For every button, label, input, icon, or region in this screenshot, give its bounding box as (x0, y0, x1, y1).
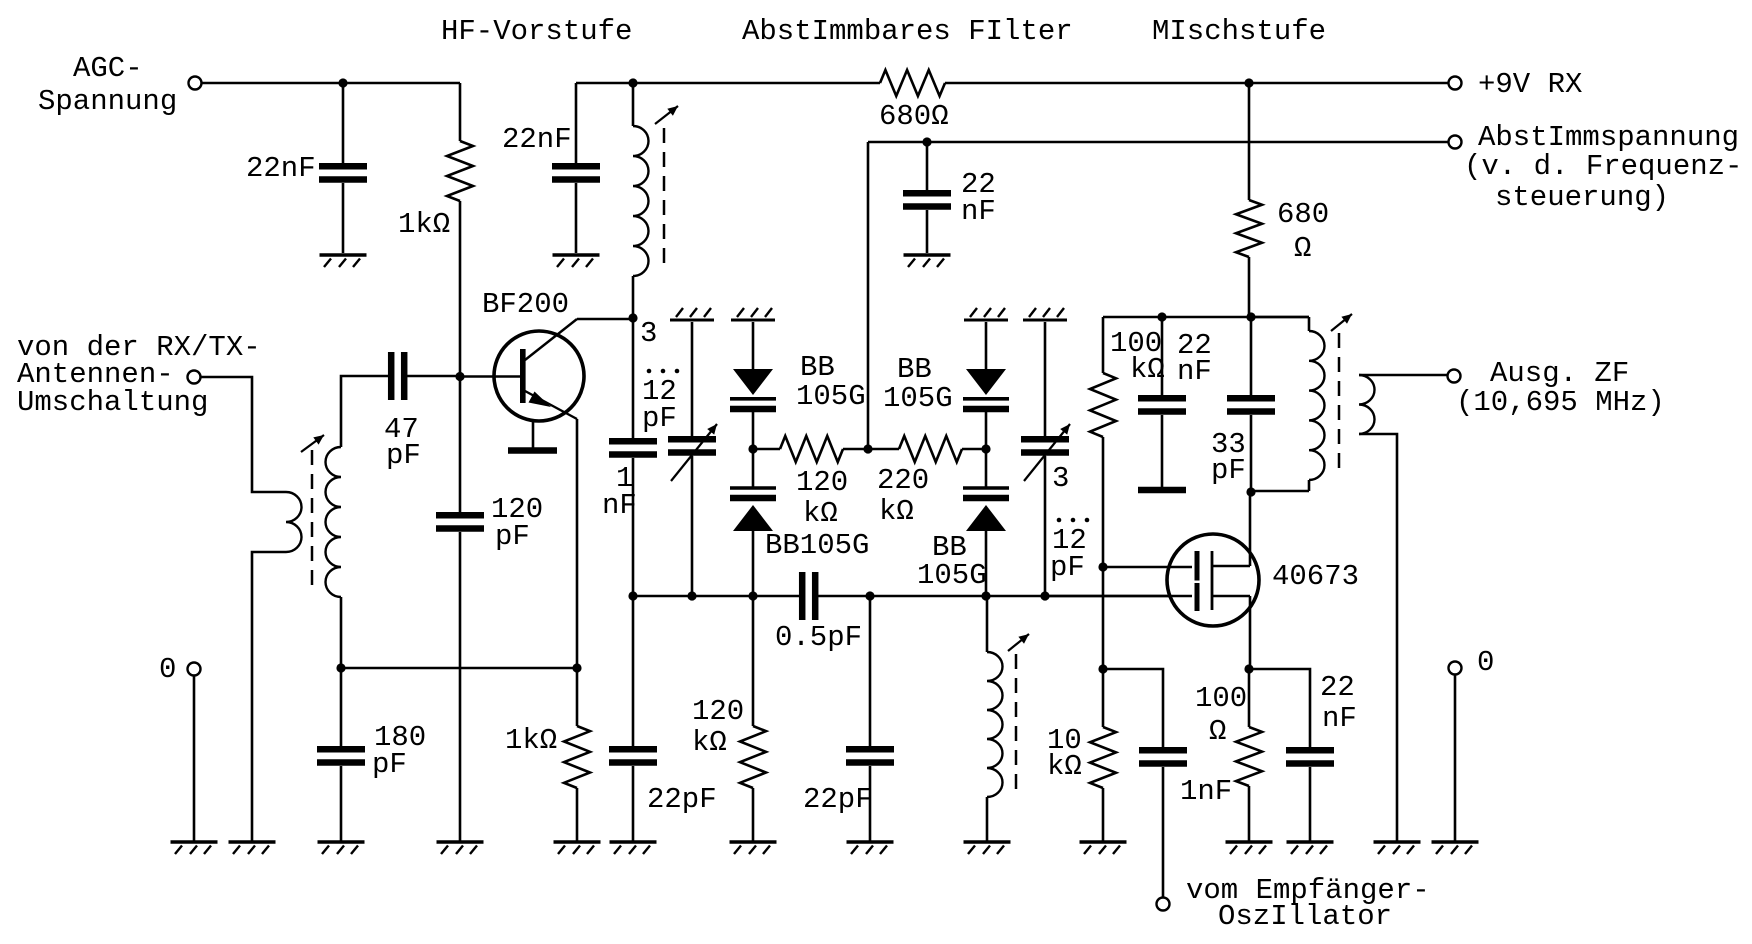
svg-text:120: 120 (692, 695, 744, 728)
junction source node (1244, 664, 1253, 673)
wire osc node to 1nF (1103, 669, 1163, 747)
wire +9V rail right part (945, 82, 1448, 85)
svg-text:pF: pF (495, 520, 530, 553)
junction rail/22pF2 (865, 591, 874, 600)
capacitor C8 22nF (1138, 398, 1186, 411)
ground R8 (1080, 842, 1127, 854)
wire 33pF top lead (1250, 317, 1253, 395)
ground 0 left (171, 842, 218, 854)
label BB 105G (D4) (917, 531, 987, 592)
label BB 105G (D1) (796, 351, 866, 413)
wire filter rail left (633, 595, 799, 598)
wire secondary to 180pF (340, 668, 343, 746)
transistor Q1 emitter stroke (525, 391, 577, 419)
wire osc node to R8 (1102, 669, 1105, 727)
junction filter rail/varactor1 (748, 591, 757, 600)
capacitor C7 22pF (846, 749, 894, 762)
wire collector to L1 node (577, 318, 633, 321)
wire varactor1 to R4 (753, 448, 780, 451)
wire R9 to mixer supply node (1248, 257, 1251, 317)
svg-text:steuerung): steuerung) (1495, 181, 1669, 214)
label 100Ohm R10 (1195, 682, 1247, 748)
wire C10 to osc terminal (1162, 767, 1165, 897)
junction tuning/C3 (922, 137, 931, 146)
wire +9V rail left part (576, 82, 880, 85)
wire 1nF to filter rail (632, 458, 635, 596)
wire varactor2 bottom lead (985, 531, 988, 596)
wire T1 secondary bottom (340, 597, 343, 668)
resistor R3 1kOhm emitter (564, 726, 590, 788)
junction drain node (1246, 487, 1255, 496)
label 1nF C10 (1180, 775, 1232, 808)
resistor R5 220kOhm (899, 436, 962, 462)
title HF-Vorstufe (441, 15, 632, 48)
wire base node down to C120 (459, 376, 462, 512)
label 1nF (602, 462, 637, 522)
wire R5 to varactor2 (962, 448, 986, 451)
wire T2 secondary bottom (1359, 434, 1397, 842)
label BB 105G (D3) (883, 353, 953, 415)
svg-text:0.5pF: 0.5pF (775, 621, 862, 654)
svg-text:kΩ: kΩ (879, 495, 914, 528)
wire 0 right to ground (1454, 675, 1457, 842)
inductor L3 filter coil (987, 652, 1002, 797)
terminal 0 right (1449, 662, 1462, 675)
wire G2 into mosfet (1103, 566, 1192, 569)
wire 33pF bottom lead (1250, 415, 1253, 492)
svg-text:22pF: 22pF (647, 783, 717, 816)
wire T2 primary bottom (1251, 490, 1309, 493)
ground inverted trimmer1 (670, 308, 714, 320)
diode D3 BB105G top (963, 369, 1009, 409)
label 120kOhm R4 (796, 466, 848, 530)
label 22nF C11 (1320, 671, 1357, 735)
wire AGC corner down to R1 (459, 83, 462, 141)
svg-text:(10,695 MHz): (10,695 MHz) (1456, 386, 1665, 419)
svg-text:pF: pF (372, 748, 407, 781)
junction filter rail/trimmer1 (687, 591, 696, 600)
label 1kOhm R1 (398, 208, 450, 241)
capacitor 120pF (436, 515, 484, 528)
svg-text:120: 120 (796, 466, 848, 499)
junction supply/22nF C8 (1157, 312, 1166, 321)
wire tuning line y=142 (868, 141, 1448, 144)
wire source node to C11 (1249, 669, 1310, 747)
wire varactor1 top lead (752, 322, 755, 369)
svg-text:220: 220 (877, 464, 929, 497)
wire R4 to tuning feed (843, 448, 868, 451)
wire base lead (460, 375, 520, 378)
wire tuning feed to R5 (868, 448, 899, 451)
ground R10 (1226, 842, 1273, 854)
junction AGC/22nF (338, 78, 347, 87)
label 22pF C7 (803, 783, 873, 816)
svg-text:kΩ: kΩ (1130, 353, 1165, 386)
transistor Q2 source tap (1212, 595, 1250, 598)
ground R6 (730, 842, 777, 854)
label 100kOhm R7 (1110, 327, 1165, 386)
svg-text:680: 680 (1277, 198, 1329, 231)
wire varactor2 top lead (985, 322, 988, 369)
terminal AGC-Spannung (189, 77, 202, 90)
capacitor C1 22nF (319, 166, 367, 179)
svg-text:Umschaltung: Umschaltung (17, 386, 208, 419)
inductor T1 secondary (326, 447, 342, 597)
label 22nF C3 (961, 168, 996, 228)
label 680Ohm R2 (879, 100, 949, 133)
resistor R1 1kOhm (447, 141, 473, 201)
wire C8 bottom lead (1161, 415, 1164, 487)
diode D1 BB105G top (730, 369, 776, 409)
resistor R4 120kOhm (780, 436, 843, 462)
svg-text:100: 100 (1195, 682, 1247, 715)
capacitor C2 22nF (552, 166, 600, 179)
wire 0 left to ground (193, 676, 196, 842)
svg-text:OszIllator: OszIllator (1218, 900, 1392, 933)
label 3...12pF trimmer2 (1050, 462, 1089, 584)
ground L3 (964, 842, 1011, 854)
arrow trimmer C4 (671, 424, 717, 481)
label 22nF C8 (1177, 329, 1212, 388)
junction collector node (628, 313, 637, 322)
wire filter rail right (816, 595, 1192, 598)
wire trimmer2 top lead (1044, 322, 1047, 436)
wire C8 top lead (1161, 317, 1164, 395)
junction tuning feed (863, 444, 872, 453)
inductor T2 secondary (1359, 375, 1374, 434)
wire antenna to T1 primary (201, 377, 286, 492)
wire L1 bottom lead (632, 276, 635, 318)
label 220kOhm R5 (877, 464, 929, 528)
label Abstimmspannung (1464, 121, 1742, 214)
arrow trimmer C5 (1024, 424, 1070, 481)
svg-text:22nF: 22nF (246, 152, 316, 185)
svg-text:22nF: 22nF (502, 123, 572, 156)
terminal 0 left (188, 663, 201, 676)
svg-text:(v. d. Frequenz-: (v. d. Frequenz- (1464, 150, 1742, 183)
label 40673 (1272, 560, 1359, 593)
ground inverted varactor2 (964, 308, 1008, 320)
core L3 dashed (1015, 654, 1018, 790)
inductor T2 primary (1309, 317, 1325, 491)
resistor R6 120kOhm (740, 726, 766, 788)
core T1 dashed (311, 450, 314, 590)
svg-text:AGC-: AGC- (73, 52, 143, 85)
svg-text:1kΩ: 1kΩ (398, 208, 450, 241)
wire R1 to base node (459, 201, 462, 376)
core T2 dashed (1338, 333, 1341, 472)
label 0 left (159, 653, 176, 686)
wire C2 bottom lead (575, 183, 578, 253)
svg-text:105G: 105G (796, 380, 866, 413)
label +9V RX (1478, 68, 1582, 101)
svg-text:680Ω: 680Ω (879, 100, 949, 133)
wire tuning feed down (867, 142, 870, 449)
svg-text:0: 0 (159, 653, 176, 686)
wire collector node down to 1nF (632, 318, 635, 438)
wire varactor1 mid lower (752, 449, 755, 487)
svg-text:pF: pF (1050, 551, 1085, 584)
svg-text:kΩ: kΩ (803, 497, 838, 530)
capacitor C6 22pF (609, 749, 657, 762)
svg-text:1kΩ: 1kΩ (505, 724, 557, 757)
arrow L1 adjustable (655, 106, 678, 124)
junction filter rail/1nF (628, 591, 637, 600)
wire source node to R10 (1248, 669, 1251, 727)
wire R8 to ground (1102, 788, 1105, 842)
svg-text:22pF: 22pF (803, 783, 873, 816)
svg-text:3: 3 (1052, 462, 1069, 495)
wire drain up (1249, 492, 1252, 566)
ground C1 (320, 255, 367, 267)
svg-text:+9V RX: +9V RX (1478, 68, 1582, 101)
label BB105G (D2) (765, 529, 869, 562)
capacitor 180pF (317, 749, 365, 762)
terminal antenna input (188, 371, 201, 384)
label 680Ohm R9 (1277, 198, 1329, 265)
transistor Q1 shield ground bar (508, 447, 557, 454)
label 120pF (491, 493, 543, 553)
ground C11 (1287, 842, 1334, 854)
capacitor C11 22nF (1286, 750, 1334, 763)
transistor Q1 base bar (520, 349, 526, 403)
svg-text:1nF: 1nF (1180, 775, 1232, 808)
svg-text:nF: nF (1177, 355, 1212, 388)
diode D2 BB105G bottom (730, 488, 776, 531)
arrow L3 adjustable (1008, 634, 1029, 651)
wire R7 to G2 node (1102, 437, 1105, 567)
terminal Ausg. ZF (1448, 370, 1461, 383)
label 22nF C1 (246, 152, 316, 185)
svg-text:Ω: Ω (1294, 232, 1311, 265)
resistor R9 680Ohm (1236, 200, 1262, 257)
diode D4 BB105G bottom (963, 488, 1009, 531)
ground 120pF (437, 842, 484, 854)
svg-text:pF: pF (1211, 454, 1246, 487)
wire L3 to ground (986, 797, 989, 842)
trimmer capacitor C4 plates (668, 439, 716, 452)
capacitor 1nF coupling (609, 441, 657, 454)
wire C3 bottom lead (926, 210, 929, 253)
svg-text:3: 3 (640, 317, 657, 350)
ground inverted trimmer2 (1023, 308, 1067, 320)
label 10kOhm R8 (1047, 724, 1082, 783)
svg-text:AbstImmbares FIlter: AbstImmbares FIlter (742, 15, 1073, 48)
junction supply/33pF (1246, 312, 1255, 321)
wire C11 to ground (1309, 767, 1312, 842)
svg-text:kΩ: kΩ (1047, 750, 1082, 783)
svg-text:nF: nF (961, 195, 996, 228)
wire C1 bottom lead (342, 183, 345, 253)
junction rail/L1 (628, 78, 637, 87)
wire T2 secondary top to output (1359, 374, 1447, 377)
transistor Q2 channel (1211, 551, 1214, 610)
wire source down (1249, 596, 1252, 669)
label Ausg. ZF (1456, 357, 1665, 419)
wire bypass rail y=668 (341, 667, 577, 670)
ground 180pF (318, 842, 365, 854)
title Mischstufe (1152, 15, 1326, 48)
label 33pF C9 (1211, 428, 1246, 487)
svg-text:BF200: BF200 (482, 288, 569, 321)
ground 0 right (1432, 842, 1479, 854)
wire trimmer1 bottom lead (691, 456, 694, 596)
wire emitter to R3 (576, 668, 579, 726)
junction osc node (1098, 664, 1107, 673)
label 22pF C6 (647, 783, 717, 816)
wire 22nF C1 top lead (342, 83, 345, 163)
transistor Q2 drain tap (1212, 565, 1250, 568)
ground C2 (553, 255, 600, 267)
junction G2 node (1098, 562, 1107, 571)
capacitor C3 22nF (903, 193, 951, 206)
wire AGC node y=83 (202, 82, 460, 85)
wire 100k top corner (1102, 317, 1105, 373)
wire L1 top lead (632, 83, 635, 126)
svg-text:pF: pF (642, 402, 677, 435)
ground inverted varactor1 (731, 308, 775, 320)
wire varactor2 mid lower (985, 449, 988, 487)
resistor R8 10kOhm (1090, 727, 1116, 788)
ground T2 secondary (1374, 842, 1421, 854)
ground C6 (610, 842, 657, 854)
junction varactor2 tuning node (981, 444, 990, 453)
junction secondary/bypass rail (336, 663, 345, 672)
wire L3 top lead (986, 596, 989, 652)
wire T1 secondary top (341, 376, 388, 447)
junction rail/R680 vertical (1244, 78, 1253, 87)
capacitor 47pF (391, 352, 404, 400)
svg-text:Ω: Ω (1209, 715, 1226, 748)
arrow T1 adjustable (301, 435, 324, 452)
wire T2 primary top (1251, 316, 1309, 319)
label von der RX/TX-Antennen-Umschaltung (17, 331, 261, 419)
label 0.5pF (775, 621, 862, 654)
inductor T1 primary (286, 492, 302, 552)
svg-text:nF: nF (1322, 702, 1357, 735)
trimmer capacitor C5 plates (1021, 439, 1069, 452)
label 3...12pF trimmer1 (640, 317, 679, 435)
junction filter rail/varactor2 (981, 591, 990, 600)
wire R6 top lead (752, 596, 755, 726)
wire R6 to ground (752, 788, 755, 842)
junction base node (455, 372, 464, 381)
svg-text:kΩ: kΩ (692, 726, 727, 759)
wire G2 node down to osc node (1102, 567, 1105, 669)
svg-text:105G: 105G (883, 382, 953, 415)
svg-text:HF-Vorstufe: HF-Vorstufe (441, 15, 632, 48)
resistor R2 680Ohm series (880, 70, 945, 96)
wire C7 to ground (869, 766, 872, 842)
transistor Q1 collector stroke (525, 319, 577, 360)
ground R3 (554, 842, 601, 854)
transistor Q2 40673 body (1167, 534, 1259, 626)
wire C3 top lead (926, 142, 929, 190)
wire trimmer2 bottom lead (1044, 456, 1047, 596)
svg-text:105G: 105G (917, 559, 987, 592)
wire mixer supply node y=317 (1103, 316, 1309, 319)
wire varactor1 mid (752, 412, 755, 449)
wire G1 into mosfet (1045, 595, 1192, 598)
chassis bar C8 (1138, 487, 1186, 494)
svg-text:BB105G: BB105G (765, 529, 869, 562)
junction emitter/bypass rail (572, 663, 581, 672)
junction filter rail/trimmer2 (1040, 591, 1049, 600)
wire T1 primary bottom to ground (252, 552, 286, 842)
svg-text:22: 22 (1320, 671, 1355, 704)
arrow T2 adjustable (1331, 314, 1352, 331)
label 180pF (372, 721, 426, 781)
wire 120pF to ground (459, 532, 462, 842)
label BF200 (482, 288, 569, 321)
capacitor C10 1nF (1139, 750, 1187, 763)
svg-text:Spannung: Spannung (38, 85, 177, 118)
wire 22pF C7 top lead (869, 596, 872, 746)
title Abstimmbares Filter (742, 15, 1073, 48)
terminal vom Empfaenger-Oszillator (1157, 898, 1170, 911)
transistor Q1 BF200 body (494, 331, 584, 421)
resistor R7 100kOhm (1090, 373, 1116, 437)
ground C3 (904, 255, 951, 267)
wire 22pF C6 top lead (632, 596, 635, 746)
label AGC-Spannung (38, 52, 177, 118)
capacitor 0.5pF coupling (802, 572, 815, 620)
wire 180pF to ground (340, 766, 343, 842)
wire 47pF to base node (405, 375, 460, 378)
label 22nF C2 (502, 123, 572, 156)
terminal +9V RX (1449, 77, 1462, 90)
svg-text:40673: 40673 (1272, 560, 1359, 593)
wire supply drop top (1248, 83, 1251, 200)
label 1kOhm R3 (505, 724, 557, 757)
svg-text:nF: nF (602, 489, 637, 522)
junction varactor1 tuning node (748, 444, 757, 453)
svg-text:MIschstufe: MIschstufe (1152, 15, 1326, 48)
ground C7 (847, 842, 894, 854)
label 47pF (384, 413, 421, 472)
svg-text:pF: pF (386, 439, 421, 472)
capacitor C2 22nF top corner (575, 83, 578, 163)
svg-text:0: 0 (1477, 646, 1494, 679)
capacitor C9 33pF (1227, 398, 1275, 411)
wire varactor2 mid (985, 412, 988, 449)
inductor L1 (633, 126, 648, 276)
wire emitter down (576, 419, 579, 668)
transistor Q2 gate bars (1195, 551, 1200, 611)
resistor R10 100Ohm (1236, 727, 1262, 786)
wire C6 to ground (632, 766, 635, 842)
wire trimmer1 top lead (691, 322, 694, 436)
ground T1 primary (229, 842, 276, 854)
label vom Empfaenger-Oszillator (1186, 874, 1430, 933)
wire varactor1 bottom lead (752, 531, 755, 596)
label 120kOhm R6 (692, 695, 744, 759)
label 0 right (1477, 646, 1494, 679)
transistor Q1 shield lead (532, 420, 535, 448)
wire R3 to ground (576, 788, 579, 842)
wire R10 to ground (1248, 786, 1251, 842)
terminal Abstimmspannung (1449, 136, 1462, 149)
core L1 dashed (663, 128, 666, 268)
